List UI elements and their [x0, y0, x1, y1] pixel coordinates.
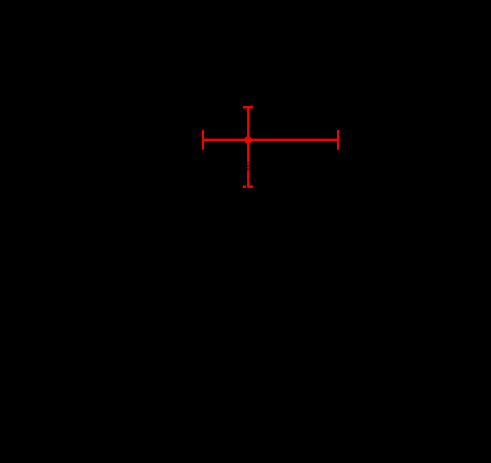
vertical error bar dotted segment — [247, 163, 249, 172]
vertical error bar dots — [247, 163, 249, 172]
bottom cap left dash — [243, 185, 246, 188]
top cap — [243, 106, 253, 109]
vertical error bar upper segment — [247, 107, 249, 163]
horizontal error bar line — [202, 139, 338, 141]
vertical error bar lower segment — [247, 172, 249, 188]
bottom cap right dash — [248, 185, 253, 188]
center data point marker — [244, 136, 252, 143]
right cap — [337, 130, 339, 150]
left cap — [202, 130, 204, 150]
